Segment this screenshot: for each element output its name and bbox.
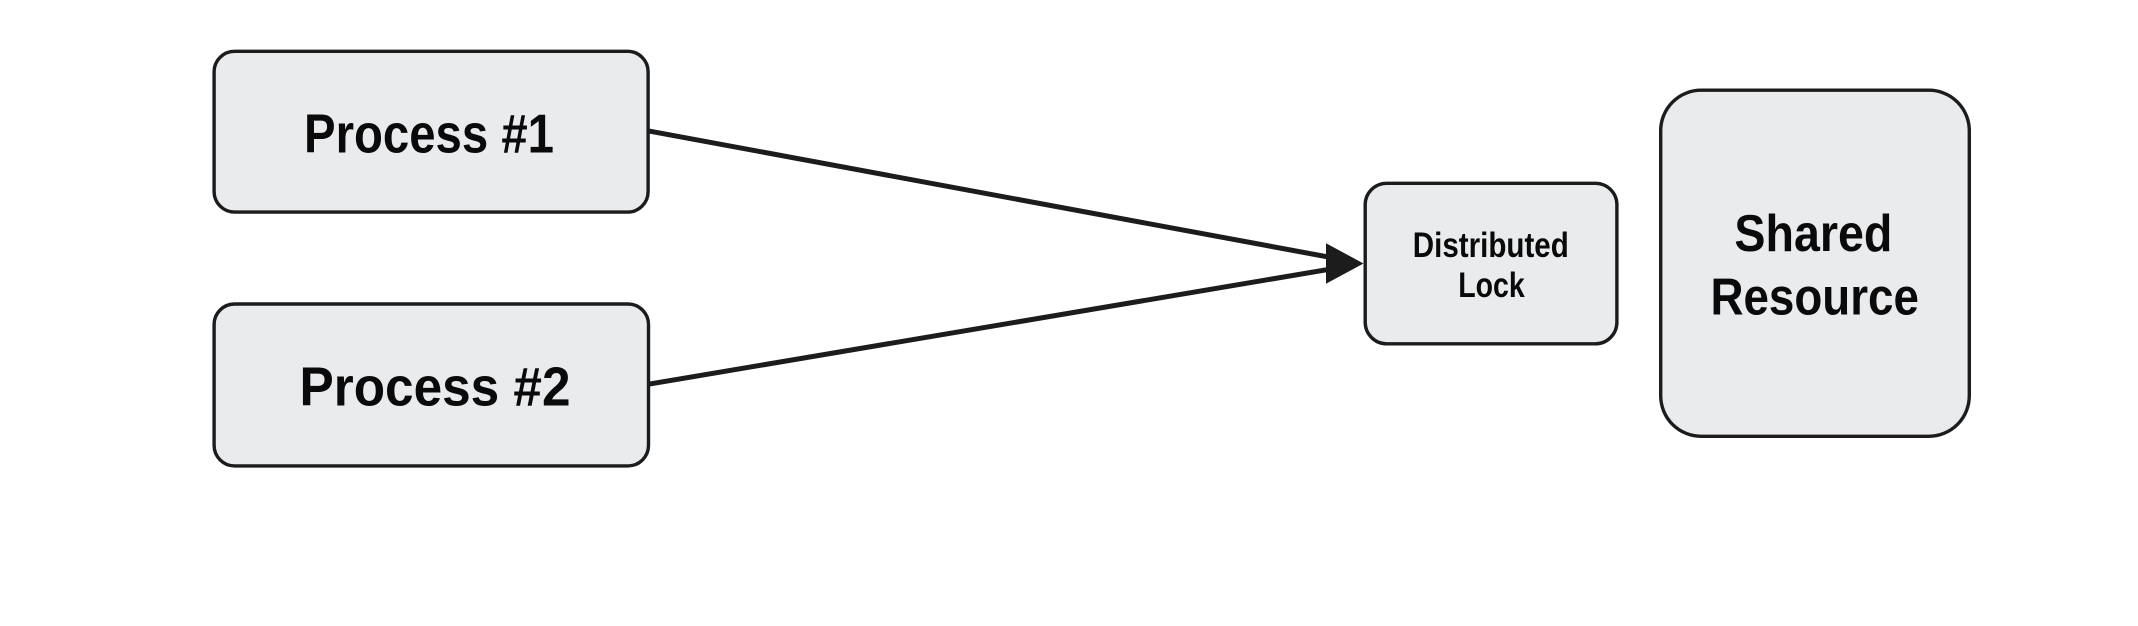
svg-text:Lock: Lock xyxy=(1458,266,1525,305)
svg-text:Resource: Resource xyxy=(1710,269,1919,327)
svg-text:Process #2: Process #2 xyxy=(300,356,571,418)
svg-text:Shared: Shared xyxy=(1734,205,1892,263)
svg-text:Distributed: Distributed xyxy=(1413,226,1569,265)
svg-text:Process #1: Process #1 xyxy=(304,103,554,165)
